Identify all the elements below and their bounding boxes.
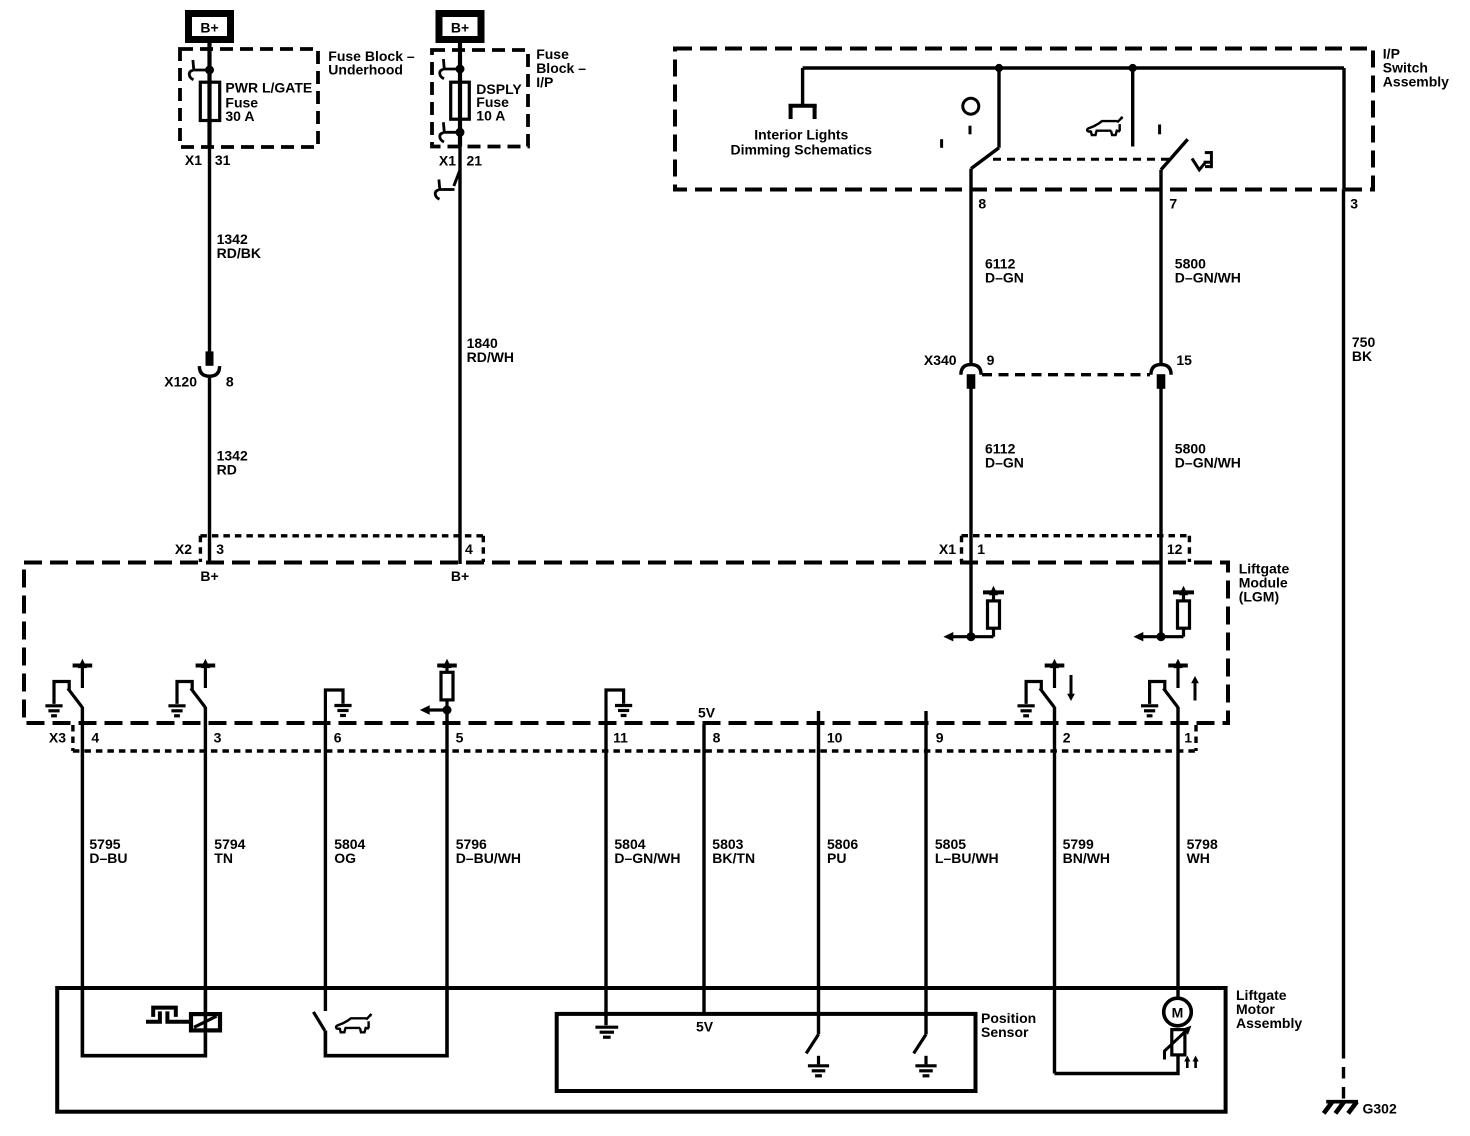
labels X340 pin 9	[924, 352, 995, 368]
svg-text:Dimming Schematics: Dimming Schematics	[730, 142, 872, 158]
position switch 5806 PU	[806, 1034, 829, 1075]
svg-text:D–GN/WH: D–GN/WH	[614, 850, 680, 866]
wire 5795 D-BU	[81, 707, 84, 990]
svg-text:4: 4	[91, 730, 99, 746]
pin 10 of X3	[827, 730, 843, 746]
wire label 5804 OG	[334, 836, 365, 866]
wire label 5798 WH	[1187, 836, 1218, 866]
pin 2 of X3	[1063, 730, 1071, 746]
svg-text:4: 4	[465, 541, 473, 557]
svg-text:OG: OG	[334, 850, 356, 866]
liftgate module LGM (dashed box)	[24, 563, 1228, 724]
svg-text:Assembly: Assembly	[1383, 73, 1449, 89]
wire 750 BK segment	[1342, 189, 1345, 1047]
wire label 5800 D-GN/WH lower	[1175, 441, 1241, 471]
svg-text:10 A: 10 A	[476, 107, 505, 123]
pin 11 of X3	[613, 730, 628, 746]
fuse block - underhood (dashed outline)	[180, 49, 318, 147]
svg-text:B+: B+	[451, 19, 469, 35]
label I/P Switch Assembly	[1383, 45, 1449, 89]
dashed link of connector X340	[982, 373, 1150, 376]
connector X3 strip (dotted)	[73, 725, 1196, 751]
svg-text:6: 6	[334, 730, 342, 746]
svg-text:D–GN: D–GN	[985, 270, 1024, 286]
lamp circle of open switch	[963, 98, 979, 114]
sense resistor with arrow at X3 pin 5	[420, 659, 457, 715]
svg-text:D–BU: D–BU	[89, 850, 127, 866]
connector X1 pin 31 labels	[185, 152, 231, 168]
liftgate motor assembly (solid box)	[57, 988, 1225, 1112]
pulse signal symbol	[146, 1008, 192, 1022]
detent contact symbol	[1192, 151, 1211, 170]
wire label 5800 D-GN/WH upper	[1175, 256, 1241, 286]
svg-text:10: 10	[827, 730, 843, 746]
pin 7 of I/P switch assembly	[1169, 195, 1177, 211]
wire - motor return loop	[1055, 1055, 1179, 1074]
svg-text:X1: X1	[439, 152, 456, 168]
svg-text:G302: G302	[1363, 1100, 1397, 1116]
input resistor with sense arrow at X1 pin 12	[1133, 586, 1194, 642]
svg-text:8: 8	[713, 730, 721, 746]
inline connector X120 pin 8	[199, 352, 219, 376]
wire 5796 D-BU/WH	[445, 711, 448, 990]
label Liftgate Module (LGM)	[1239, 561, 1290, 605]
pin 8 of I/P switch assembly	[978, 195, 986, 211]
output driver switch at X3 pin 4	[45, 659, 92, 716]
wire label 750 BK	[1352, 334, 1376, 364]
power symbol B+ (battery feed, DSPLY)	[439, 14, 481, 40]
svg-text:9: 9	[936, 730, 944, 746]
svg-text:5: 5	[456, 730, 464, 746]
wire 6112 D-GN upper segment	[969, 191, 972, 365]
svg-text:31: 31	[215, 152, 231, 168]
wire label 5794 TN	[214, 836, 245, 866]
junction on bus (close switch branch)	[1129, 64, 1136, 71]
svg-text:12: 12	[1167, 541, 1183, 557]
node 5V reference at X3 pin 8	[698, 705, 716, 721]
wire 5804 OG	[324, 724, 327, 1011]
wire label 5795 D-BU	[89, 836, 127, 866]
svg-text:L–BU/WH: L–BU/WH	[935, 850, 999, 866]
wire 5806 PU	[817, 711, 820, 1034]
svg-text:5V: 5V	[698, 705, 716, 721]
svg-text:B+: B+	[200, 19, 218, 35]
node 5V inside position sensor	[696, 1019, 714, 1035]
ground G302 (chassis ground)	[1324, 1102, 1358, 1114]
svg-text:3: 3	[214, 730, 222, 746]
labels connector X1 pins 1 and 12	[939, 541, 1183, 557]
svg-text:(LGM): (LGM)	[1239, 589, 1279, 605]
label Liftgate Motor Assembly	[1236, 987, 1302, 1031]
connector X1 pin 21 labels	[439, 152, 482, 168]
label X340 pin 15	[1176, 352, 1192, 368]
terminal clip in fuse block underhood	[189, 60, 213, 80]
wire 6112 D-GN lower segment	[969, 388, 972, 636]
svg-text:X3: X3	[49, 730, 66, 746]
svg-text:Underhood: Underhood	[328, 62, 403, 78]
svg-text:I/P: I/P	[536, 74, 553, 90]
terminal clip lower in fuse block I/P	[440, 122, 464, 142]
svg-text:PWR L/GATE: PWR L/GATE	[225, 80, 312, 96]
position switch 5805 L-BU/WH	[914, 1034, 937, 1075]
wire label 5803 BK/TN	[712, 836, 755, 866]
wire label 5796 D-BU/WH	[456, 836, 521, 866]
label Fuse Block - Underhood	[328, 48, 415, 77]
wire - 1342 RD down to LGM X2 pin 3	[208, 376, 211, 564]
power symbol B+ (battery feed, PWR L/GATE)	[189, 14, 231, 40]
svg-text:8: 8	[978, 195, 986, 211]
svg-text:X2: X2	[175, 541, 192, 557]
svg-text:RD/BK: RD/BK	[217, 245, 261, 261]
svg-text:D–GN/WH: D–GN/WH	[1175, 270, 1241, 286]
position potentiometer (variable resistor)	[1165, 1026, 1192, 1060]
motor driver switch at X3 pin 1 with up arrow	[1141, 659, 1199, 716]
labels connector X2 pins 3 and 4	[175, 541, 473, 557]
svg-text:Assembly: Assembly	[1236, 1015, 1302, 1031]
svg-text:X340: X340	[924, 352, 957, 368]
wire label 6112 D-GN lower	[985, 441, 1024, 471]
motor M (liftgate motor)	[1164, 998, 1192, 1026]
svg-text:RD/WH: RD/WH	[467, 349, 514, 365]
double up arrows (travel direction)	[1184, 1056, 1199, 1069]
fuse DSPLY 10 A	[451, 82, 470, 119]
pin 9 of X3	[936, 730, 944, 746]
pin 8 of X3	[713, 730, 721, 746]
fuse block - I/P (dashed outline)	[432, 50, 528, 147]
wire label 6112 D-GN upper	[985, 256, 1024, 286]
svg-text:RD: RD	[217, 461, 237, 477]
svg-text:BK/TN: BK/TN	[712, 850, 755, 866]
ground link at X3 pin 11	[606, 690, 632, 724]
label connector X3	[49, 730, 66, 746]
svg-text:1: 1	[1184, 730, 1192, 746]
off-page reference to Interior Lights Dimming Schematics	[789, 68, 817, 119]
svg-text:21: 21	[467, 152, 483, 168]
switch - liftgate close (open position)	[1133, 68, 1188, 191]
svg-text:30 A: 30 A	[225, 108, 254, 124]
wire 5800 D-GN/WH lower segment	[1159, 388, 1162, 636]
svg-text:PU: PU	[827, 850, 846, 866]
position sensor (solid box)	[557, 1014, 976, 1091]
I/P switch assembly (dashed box)	[675, 49, 1373, 190]
dashed link lamp to switch	[942, 126, 970, 148]
wire label 1840 RD/WH	[467, 335, 514, 365]
svg-text:1: 1	[977, 541, 985, 557]
wire 5800 D-GN/WH upper segment	[1159, 191, 1162, 365]
input resistor with sense arrow at X1 pin 1	[943, 586, 1004, 642]
wire - internal B+ bus of switch assembly	[803, 68, 1344, 189]
svg-text:5V: 5V	[696, 1019, 714, 1035]
connector X2 strip (dotted)	[200, 536, 483, 562]
svg-text:B+: B+	[200, 568, 218, 584]
wire 5794 TN	[204, 707, 207, 990]
svg-text:BK: BK	[1352, 348, 1372, 364]
svg-text:B+: B+	[451, 568, 469, 584]
svg-text:D–GN: D–GN	[985, 455, 1024, 471]
wire label 5799 BN/WH	[1063, 836, 1110, 866]
inline connector X340 pin 15	[1151, 365, 1171, 389]
svg-text:X120: X120	[164, 374, 197, 390]
output driver switch at X3 pin 3	[168, 659, 215, 716]
svg-text:11: 11	[613, 730, 628, 746]
dashed link near close switch	[1158, 125, 1161, 135]
pin 6 of X3	[334, 730, 342, 746]
svg-text:BN/WH: BN/WH	[1063, 850, 1110, 866]
svg-text:7: 7	[1169, 195, 1177, 211]
node B+ at X2 pin 3	[200, 568, 218, 584]
svg-text:8: 8	[226, 374, 234, 390]
ganged-switch dashed link	[993, 158, 1171, 161]
wire label 1342 RD/BK	[217, 231, 261, 261]
liftgate ajar switch sub-box	[325, 990, 447, 1056]
wire label 5804 D-GN/WH	[614, 836, 680, 866]
ground inside position sensor (5804 D-GN/WH)	[595, 1027, 618, 1037]
pin 4 of X3	[91, 730, 99, 746]
svg-text:D–BU/WH: D–BU/WH	[456, 850, 521, 866]
terminal clip upper in fuse block I/P	[440, 59, 464, 79]
svg-text:15: 15	[1176, 352, 1192, 368]
inline connector X340 pin 9	[961, 365, 981, 389]
wire 750 BK dashed segment to ground	[1342, 1047, 1345, 1099]
svg-text:2: 2	[1063, 730, 1071, 746]
latch solenoid (crossed box)	[191, 1014, 220, 1030]
wire label 1342 RD	[217, 447, 248, 477]
pin 3 of I/P switch assembly	[1350, 195, 1358, 211]
node B+ at X2 pin 4	[451, 568, 469, 584]
wire label 5805 L-BU/WH	[935, 836, 999, 866]
label Fuse Block - I/P	[536, 46, 586, 90]
ajar switch blade	[313, 1012, 324, 1031]
fuse PWR L/GATE 30 A	[200, 82, 219, 120]
svg-text:TN: TN	[214, 850, 233, 866]
labels X120 pin 8	[164, 374, 234, 390]
wire 5805 L-BU/WH	[924, 711, 927, 1034]
svg-text:Interior Lights: Interior Lights	[754, 127, 848, 143]
car icon in ajar switch	[336, 1014, 372, 1032]
wire 5804 D-GN/WH	[604, 724, 607, 1025]
pin 3 of X3	[214, 730, 222, 746]
switch - liftgate open (closed position)	[971, 68, 999, 191]
wire - B+ down through Fuse Block I/P to LGM X2 pin 4	[458, 43, 462, 564]
motor driver switch at X3 pin 2 with down arrow	[1018, 659, 1075, 716]
svg-text:X1: X1	[185, 152, 202, 168]
pin 5 of X3	[456, 730, 464, 746]
wire 5799 BN/WH	[1053, 707, 1056, 1074]
wire label 5806 PU	[827, 836, 858, 866]
terminal clip with pigtail below X1 pin 21	[435, 170, 460, 199]
svg-text:Sensor: Sensor	[981, 1024, 1029, 1040]
junction on bus (open switch branch)	[995, 64, 1002, 71]
svg-text:9: 9	[987, 352, 995, 368]
svg-text:D–GN/WH: D–GN/WH	[1175, 455, 1241, 471]
label DSPLY Fuse 10 A	[476, 81, 522, 124]
svg-text:X1: X1	[939, 541, 956, 557]
svg-text:3: 3	[1350, 195, 1358, 211]
label Position Sensor	[981, 1010, 1036, 1040]
connector X1 strip of LGM (dotted)	[962, 536, 1190, 562]
svg-text:3: 3	[216, 541, 224, 557]
svg-text:WH: WH	[1187, 850, 1210, 866]
svg-text:M: M	[1172, 1004, 1184, 1020]
ground link at X3 pin 6	[325, 690, 351, 724]
pin 1 of X3	[1184, 730, 1192, 746]
wire - B+ down through Fuse Block Underhood to pin 31	[207, 43, 211, 352]
label Interior Lights Dimming Schematics	[730, 127, 872, 158]
label PWR L/GATE Fuse 30 A	[225, 80, 312, 124]
wire 5803 BK/TN	[702, 724, 705, 1014]
car icon (liftgate open)	[1087, 117, 1123, 135]
latch actuator sub-box	[82, 990, 205, 1056]
label G302	[1363, 1100, 1397, 1116]
wire 5798 WH	[1176, 707, 1179, 999]
